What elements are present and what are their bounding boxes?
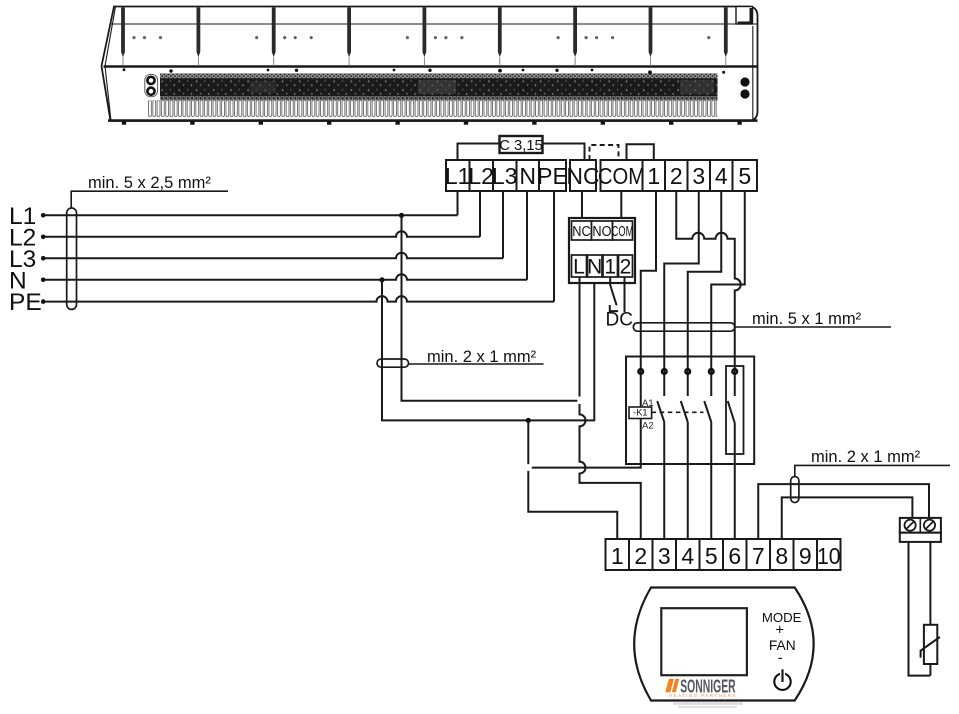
svg-text:NC: NC bbox=[566, 163, 599, 189]
svg-text:2: 2 bbox=[670, 163, 683, 189]
svg-text:NC: NC bbox=[572, 222, 590, 239]
svg-text:4: 4 bbox=[715, 163, 728, 189]
svg-text:4: 4 bbox=[681, 543, 694, 569]
svg-text:N: N bbox=[519, 163, 536, 189]
svg-text:3: 3 bbox=[658, 543, 671, 569]
svg-text:1: 1 bbox=[611, 543, 624, 569]
svg-text:6: 6 bbox=[728, 543, 741, 569]
svg-text:HEATING PARTNERS: HEATING PARTNERS bbox=[669, 693, 737, 698]
svg-text:PE: PE bbox=[9, 289, 42, 316]
svg-text:5: 5 bbox=[705, 543, 718, 569]
svg-text:7: 7 bbox=[752, 543, 765, 569]
svg-text:1: 1 bbox=[647, 163, 660, 189]
svg-text:L1: L1 bbox=[445, 163, 471, 189]
svg-text:10: 10 bbox=[817, 543, 841, 569]
svg-text:NO: NO bbox=[592, 222, 611, 239]
svg-text:2: 2 bbox=[620, 256, 632, 279]
svg-text:min. 2 x 1 mm²: min. 2 x 1 mm² bbox=[811, 448, 921, 466]
svg-text:9: 9 bbox=[799, 543, 812, 569]
svg-text:L: L bbox=[573, 256, 585, 279]
svg-text:1: 1 bbox=[604, 256, 616, 279]
svg-text:PE: PE bbox=[537, 163, 568, 189]
svg-text:min. 5 x 2,5 mm²: min. 5 x 2,5 mm² bbox=[88, 174, 211, 192]
svg-text:C 3,15: C 3,15 bbox=[499, 138, 543, 154]
svg-text:N: N bbox=[587, 256, 602, 279]
svg-text:+: + bbox=[775, 622, 784, 639]
svg-text:-: - bbox=[778, 650, 783, 667]
svg-text:L3: L3 bbox=[492, 163, 518, 189]
svg-text:L2: L2 bbox=[468, 163, 494, 189]
svg-text:min. 5 x 1 mm²: min. 5 x 1 mm² bbox=[752, 310, 862, 328]
svg-text:3: 3 bbox=[692, 163, 705, 189]
svg-text:min. 2 x 1 mm²: min. 2 x 1 mm² bbox=[427, 348, 537, 366]
svg-text:COM: COM bbox=[598, 163, 645, 190]
svg-text:8: 8 bbox=[775, 543, 788, 569]
svg-text:DC: DC bbox=[606, 310, 633, 331]
svg-text:A2: A2 bbox=[642, 421, 654, 432]
svg-text:COM: COM bbox=[612, 223, 634, 240]
svg-text:-K1: -K1 bbox=[633, 408, 647, 418]
svg-text:2: 2 bbox=[634, 543, 647, 569]
svg-text:5: 5 bbox=[738, 163, 751, 189]
